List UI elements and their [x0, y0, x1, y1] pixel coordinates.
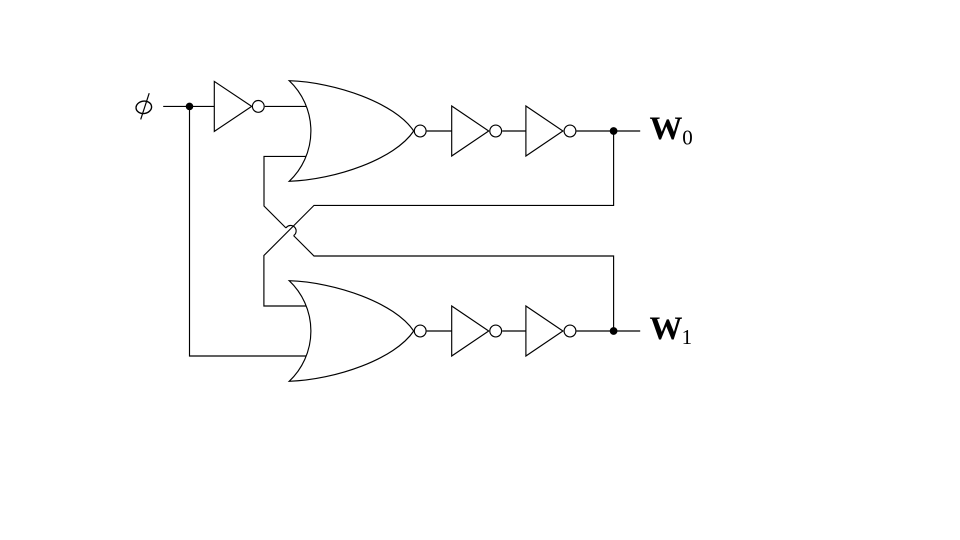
node label phi: [135, 93, 152, 119]
wire hop continuation to W1 node: [294, 236, 614, 331]
bubble U3: [490, 125, 502, 137]
wire U7 to node W1: [577, 330, 641, 332]
wire U6 to U7: [502, 330, 526, 332]
inverter U7: [526, 306, 563, 356]
svg-text:W: W: [650, 111, 683, 147]
junction W0: [610, 128, 617, 135]
NOR gate U2: [289, 81, 414, 182]
svg-text:0: 0: [682, 126, 693, 150]
wire hop at crossing: [286, 225, 296, 235]
wire feedback W1 to NOR U2 lower input (broken at hop): [264, 156, 310, 228]
node label W1: [650, 311, 693, 349]
node label W0: [650, 111, 693, 150]
svg-text:1: 1: [682, 325, 693, 349]
wire feedback W0 to NOR U5 upper input: [264, 131, 614, 306]
bubble U2: [414, 125, 426, 137]
bubble U7: [564, 325, 576, 337]
wire phi to inverter U1: [163, 105, 214, 107]
wire U1 output to NOR U2 upper input: [265, 105, 310, 107]
junction phi: [186, 103, 192, 109]
wire U2 to U3: [427, 130, 452, 132]
bubble U1: [252, 101, 264, 113]
junction W1: [610, 328, 617, 335]
bubble U6: [490, 325, 502, 337]
wire U3 to U4: [502, 130, 526, 132]
inverter U1: [214, 81, 251, 131]
inverter U6: [452, 306, 489, 356]
wire U4 to node W0: [577, 130, 641, 132]
bubble U5: [414, 325, 426, 337]
NOR gate U5: [289, 281, 414, 382]
bubble U4: [564, 125, 576, 137]
inverter U3: [452, 106, 489, 156]
svg-text:W: W: [650, 311, 683, 347]
wire U5 to U6: [427, 330, 452, 332]
inverter U4: [526, 106, 563, 156]
wire phi down to NOR U5 lower input: [190, 106, 311, 356]
